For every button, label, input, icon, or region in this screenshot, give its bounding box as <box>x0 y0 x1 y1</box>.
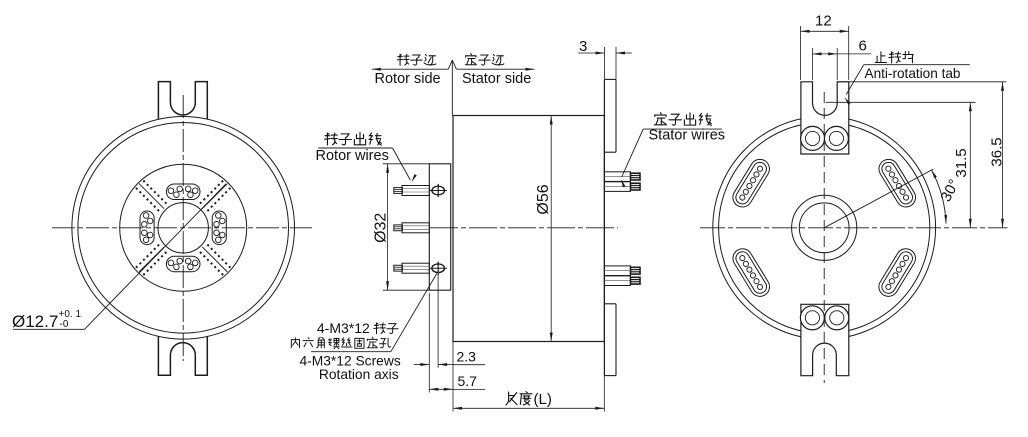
right view inner rim circle <box>719 122 930 333</box>
top bracket screw left <box>801 126 825 150</box>
left view quadrant divider solid diagonals <box>202 184 227 209</box>
tab top edge extension line (36.5 ref) <box>837 81 1006 83</box>
left view wire cluster bottom <box>166 256 200 272</box>
top bracket outline with open U-slot <box>801 82 849 154</box>
dimension 3 (disc thickness) <box>604 47 606 79</box>
bottom bracket (white fill over circle) <box>801 304 849 375</box>
flange screw hole symbol lower <box>432 264 445 273</box>
right view center hub bore <box>799 203 849 253</box>
rotor wire terminal 2 <box>402 223 429 233</box>
left view dotted separator lines <box>200 180 224 204</box>
bottom bracket screw hex right <box>830 311 844 325</box>
dimension 6 (slot width) <box>812 48 814 80</box>
stator wire terminal 4 <box>604 276 630 286</box>
svg-text:Anti-rotation tab: Anti-rotation tab <box>865 66 961 81</box>
svg-text:Rotor wires: Rotor wires <box>316 148 389 164</box>
dimension length 长度(L) <box>452 342 454 412</box>
svg-text:12: 12 <box>815 13 832 30</box>
svg-text:5.7: 5.7 <box>458 373 478 389</box>
extension line 31.5 (slot depth) <box>826 101 976 103</box>
left view center hole Ø12.7 <box>158 203 208 253</box>
stator wire terminal 3 <box>604 266 630 276</box>
left view middle circle Ø32 <box>120 164 247 291</box>
right view center hub outer circle <box>792 195 857 260</box>
svg-text:2.3: 2.3 <box>457 349 477 365</box>
slot upper-left <box>729 156 773 211</box>
rotor wire terminal 1 <box>402 186 429 196</box>
left view top tab with U-slot <box>158 82 207 120</box>
label stator wires (Chinese) with leader <box>654 113 666 125</box>
svg-text:3: 3 <box>579 38 587 55</box>
dimension 36.5 vertical <box>1002 82 1004 228</box>
left view inner rim circle <box>78 123 289 334</box>
label rotor wires (Chinese) with leader <box>324 133 337 145</box>
main cylinder body rectangle <box>453 116 604 342</box>
stator wire terminal 1 <box>604 172 630 182</box>
svg-text:36.5: 36.5 <box>989 137 1006 166</box>
rotor-stator divider arrowed line <box>372 68 448 70</box>
leader line for center hole dimension <box>13 184 226 329</box>
left view outer circle Ø56 body <box>72 117 295 340</box>
stator wire terminal 2 <box>604 182 630 192</box>
flange screw hole symbol upper <box>432 186 445 195</box>
svg-text:Ø56: Ø56 <box>535 184 552 214</box>
dimension Ø56 vertical <box>550 116 552 342</box>
left view wire cluster right <box>212 211 226 245</box>
svg-text:31.5: 31.5 <box>953 148 970 177</box>
left view horizontal centerline <box>52 227 312 229</box>
label anti-rotation tab (Chinese) with leader <box>875 52 886 63</box>
right view horizontal centerline <box>700 227 1008 229</box>
svg-text:Ø32: Ø32 <box>373 213 390 243</box>
left view wire cluster top <box>166 184 200 200</box>
right view vertical centerline <box>823 92 825 383</box>
svg-text:(L): (L) <box>534 391 552 408</box>
middle view horizontal centerline <box>430 227 618 229</box>
slot lower-right <box>875 245 919 300</box>
svg-text:4-M3*12: 4-M3*12 <box>317 320 370 336</box>
bottom bracket screw hex left <box>805 311 819 325</box>
left view wire cluster left <box>140 211 154 245</box>
label stator side (Chinese) <box>465 54 476 65</box>
dimension 12 (tab width) <box>800 26 802 80</box>
left view bottom tab with U-slot <box>158 336 207 375</box>
svg-text:Stator side: Stator side <box>462 71 531 87</box>
top bracket screw hex right <box>829 131 843 145</box>
bottom bracket outline with open U-slot <box>801 304 849 375</box>
svg-text:Stator wires: Stator wires <box>649 128 726 144</box>
dimension Ø32 vertical <box>383 163 429 165</box>
top bracket screw right <box>824 126 848 150</box>
stator disc plate <box>603 79 605 375</box>
dimension 5.7 <box>429 388 453 390</box>
svg-text:-0: -0 <box>60 319 69 330</box>
left view vertical centerline <box>182 95 184 361</box>
svg-text:Rotation axis: Rotation axis <box>319 367 399 382</box>
top anti-rotation bracket (white fill over circle) <box>801 82 849 154</box>
rotor flange plate <box>429 164 450 290</box>
dimension 31.5 vertical <box>969 102 971 228</box>
dimension 2.3 with extension lines <box>428 293 430 393</box>
svg-text:Rotor side: Rotor side <box>375 71 441 87</box>
30 degree angle arc with arrows <box>932 170 947 224</box>
rotor wire terminal 3 <box>402 263 429 273</box>
bottom bracket screw right <box>825 306 849 330</box>
30 degree radial leader line <box>824 169 933 228</box>
slot upper-right <box>875 156 919 211</box>
bottom bracket screw left <box>800 306 824 330</box>
label rotor side (Chinese) <box>397 54 409 65</box>
svg-text:6: 6 <box>859 38 867 55</box>
divider vertical line to body <box>451 60 453 115</box>
right view outer circle <box>713 116 936 339</box>
svg-text:Ø12.7: Ø12.7 <box>12 312 58 331</box>
top bracket screw hex left <box>806 131 820 145</box>
slot lower-left <box>729 245 773 300</box>
